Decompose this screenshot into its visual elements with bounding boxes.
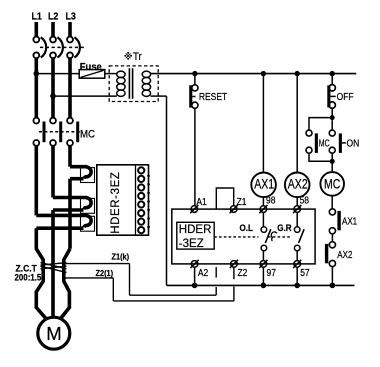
- junction dot 97: [261, 283, 267, 289]
- ZCT bundle left outline: [36, 228, 46, 319]
- jumper Z1 pi: [216, 188, 233, 209]
- junction dot L2-transformer tap: [50, 93, 56, 99]
- wire L2 into loop2: [53, 196, 87, 200]
- transformer Tr secondary winding: [142, 71, 150, 96]
- svg-text:Z2: Z2: [238, 267, 248, 278]
- svg-text:RESET: RESET: [199, 91, 228, 102]
- svg-text:MC: MC: [80, 129, 96, 141]
- svg-text:MC: MC: [319, 137, 330, 149]
- svg-text:O.L: O.L: [240, 223, 254, 234]
- svg-text:-3EZ: -3EZ: [179, 238, 204, 250]
- junction dot below ON: [330, 159, 335, 164]
- wire L2 center line to motor: [51, 210, 55, 318]
- disconnect linkage dashed: [40, 46, 85, 48]
- terminal 58: [293, 205, 301, 213]
- wire RESET to A1: [194, 108, 196, 206]
- wire L1 vertical mid: [34, 146, 38, 216]
- svg-text:L1: L1: [32, 11, 43, 23]
- wire fuse feed: [36, 73, 79, 75]
- wire bottom control bus: [167, 284, 355, 286]
- svg-text:ON: ON: [347, 138, 360, 149]
- svg-text:AX2: AX2: [288, 176, 308, 192]
- CT loop notch 1: [81, 168, 95, 183]
- pushbutton OFF: [331, 76, 333, 85]
- ZCT winding crossings: [41, 263, 67, 273]
- relay HDER-3EZ unit box: [97, 165, 149, 235]
- terminal A1: [190, 205, 198, 213]
- trip linkage dashed: [214, 236, 258, 238]
- terminal Z1: [230, 205, 238, 213]
- wire Z1 riser lower: [215, 287, 217, 295]
- svg-text:G.R: G.R: [277, 223, 292, 234]
- contact AX2 NO: [329, 242, 335, 248]
- CT loop notch 3: [81, 216, 95, 231]
- motor M circle: [38, 317, 70, 349]
- junction dot 57: [294, 283, 300, 289]
- wire 97 to bus: [262, 267, 264, 285]
- wire Z1 riser tick: [215, 267, 217, 278]
- svg-text:97: 97: [267, 267, 276, 278]
- wire ON to junction: [331, 153, 333, 172]
- ZCT label: [15, 263, 42, 283]
- svg-text:L3: L3: [65, 11, 76, 23]
- wire top control bus: [151, 73, 357, 75]
- transformer Tr reference mark: [125, 52, 132, 59]
- svg-text:Z1: Z1: [237, 196, 247, 207]
- svg-text:A1: A1: [196, 196, 206, 207]
- pushbutton RESET: [194, 76, 196, 85]
- fuse F body: [79, 70, 105, 79]
- CT loop 3: [84, 216, 91, 228]
- junction dot L1-fuse tap: [34, 71, 40, 77]
- wire L2 to transformer primary bottom: [53, 95, 117, 97]
- junction dot A2: [192, 283, 198, 289]
- wire L2 vertical upper: [51, 58, 55, 118]
- transformer Tr core: [128, 68, 130, 99]
- svg-text:A2: A2: [198, 267, 208, 278]
- transformer Tr primary winding: [117, 71, 125, 96]
- wire ZCT l output: [64, 277, 113, 279]
- wire Z1 drop: [129, 264, 131, 296]
- wire Z2 lower run: [113, 300, 234, 302]
- wire AX1 coil to 98: [262, 197, 264, 206]
- wire A2 to bus: [194, 267, 196, 285]
- contact AX1 NO: [329, 209, 335, 215]
- wire left riser: [166, 96, 168, 285]
- wire L3 into loop1: [70, 165, 87, 169]
- contactor MC linkage dashed: [39, 131, 80, 133]
- wire Z2 riser upper: [233, 267, 235, 279]
- contactor MC main poles: [33, 118, 73, 146]
- wire L3 stub: [68, 22, 72, 37]
- wire L1 into loop3: [36, 214, 87, 218]
- wire L2 stub: [51, 22, 55, 37]
- wire Z2 riser lower: [233, 287, 235, 301]
- trip hook: [271, 232, 277, 241]
- svg-text:HDER-3EZ: HDER-3EZ: [110, 171, 122, 233]
- ZCT bundle right outline: [60, 249, 70, 319]
- svg-text:HDER: HDER: [179, 224, 212, 236]
- coil AX1: [251, 173, 276, 198]
- pushbutton ON: [331, 120, 333, 130]
- transformer Tr dashed box: [109, 66, 158, 102]
- wire Z1 lower run: [130, 294, 217, 296]
- CT loop notch 2: [81, 198, 95, 213]
- wire loop1 exit: [70, 177, 84, 181]
- terminal 97: [259, 260, 267, 268]
- svg-text:MC: MC: [324, 176, 341, 192]
- wire 57 to bus: [296, 267, 298, 285]
- junction dot below OFF: [330, 115, 335, 120]
- wire L3 vertical upper: [68, 58, 72, 118]
- wire fuse to transformer: [105, 73, 117, 75]
- wire OFF to junction: [331, 108, 333, 117]
- disconnect switch DS pole2: [50, 37, 63, 59]
- terminal A2: [191, 260, 199, 268]
- svg-text:Z1(k): Z1(k): [112, 252, 130, 261]
- wire loop3 exit: [36, 226, 83, 230]
- wire L1 stub: [34, 22, 38, 37]
- wire L3 vertical lower: [68, 179, 72, 249]
- contact MC aux NO: [306, 130, 312, 136]
- svg-text:M: M: [46, 323, 61, 344]
- wire Z2 drop: [112, 278, 114, 301]
- wire secondary bottom to riser: [151, 95, 167, 97]
- svg-text:OFF: OFF: [337, 91, 354, 102]
- svg-text:58: 58: [300, 195, 309, 206]
- wire MC coil to AX1 contact: [331, 196, 333, 209]
- wire AX1 to AX2 contact: [331, 234, 333, 242]
- wire branch to MC aux: [309, 118, 332, 131]
- wire AX2 contact to bus: [331, 267, 333, 286]
- junction dot AX2 contact: [330, 283, 336, 289]
- CT loop 2: [84, 198, 91, 210]
- wire AX1 coil feed: [262, 74, 264, 173]
- svg-text:200:1.5: 200:1.5: [15, 272, 42, 283]
- junction dot AX1 tap: [261, 71, 266, 76]
- disconnect switch DS pole1: [33, 37, 46, 59]
- junction dot RESET tap: [192, 71, 197, 76]
- disconnect switch DS pole3: [67, 37, 80, 59]
- wire loop2 exit: [53, 208, 84, 212]
- wire L2 vertical mid: [51, 146, 55, 198]
- wire AX2 coil to 58: [296, 197, 298, 206]
- relay terminal screws: [138, 167, 144, 233]
- wire L1 vertical upper: [34, 58, 38, 118]
- relay HDER-3EZ label box: [177, 222, 214, 249]
- terminal 57: [293, 260, 301, 268]
- svg-text:98: 98: [266, 195, 275, 206]
- junction dot AX2 tap: [295, 71, 300, 76]
- relay unit outline box: [172, 209, 315, 264]
- terminal Z2: [230, 260, 238, 268]
- coil MC: [320, 172, 344, 196]
- svg-text:Z2(1): Z2(1): [95, 269, 113, 278]
- svg-text:AX2: AX2: [337, 249, 352, 260]
- svg-text:AX1: AX1: [254, 176, 274, 192]
- svg-text:57: 57: [300, 267, 309, 278]
- svg-text:L2: L2: [48, 11, 59, 23]
- terminal 98: [259, 205, 267, 213]
- wire L3 vertical mid: [68, 146, 72, 167]
- junction dot OFF tap: [330, 71, 335, 76]
- svg-text:Tr: Tr: [133, 51, 142, 63]
- transformer Tr label: [133, 51, 142, 63]
- wire ZCT k output: [64, 263, 130, 265]
- wire MC aux to junction: [309, 153, 332, 161]
- wire AX2 coil feed: [296, 74, 298, 173]
- svg-text:AX1: AX1: [342, 216, 357, 227]
- coil AX2: [285, 173, 310, 198]
- CT loop 1: [84, 167, 91, 179]
